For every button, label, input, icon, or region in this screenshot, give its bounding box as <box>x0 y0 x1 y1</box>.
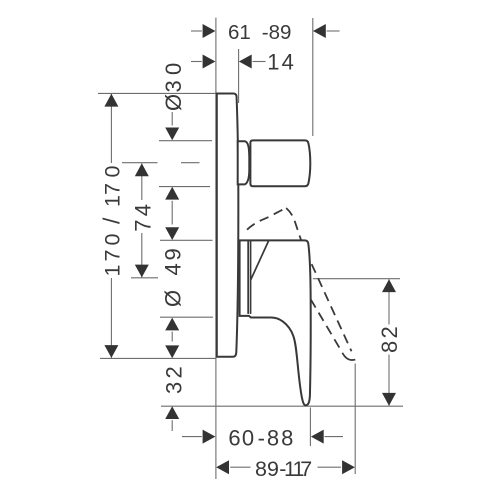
dimension 61-89 line tails <box>191 30 202 32</box>
dimension 82 line <box>388 279 390 324</box>
82 top extension line <box>313 278 400 280</box>
dashed lever tip extension line <box>354 364 356 475</box>
dimension 89-117 arrows <box>216 460 229 474</box>
wall extension line <box>215 18 217 479</box>
svg-text:117: 117 <box>284 457 312 481</box>
14 right extension line <box>238 49 240 103</box>
dim 74 bottom extension line <box>131 277 158 279</box>
plate bottom extension line <box>100 357 216 359</box>
knob centre line <box>122 162 158 164</box>
valve top extension line <box>160 239 213 241</box>
dimension 60-88 arrows <box>203 430 216 444</box>
dimension 60-88 tails <box>182 436 202 438</box>
dashed lever apex (open position) <box>247 208 286 230</box>
sleeve front lines <box>247 240 249 314</box>
svg-text:-88: -88 <box>258 425 296 450</box>
dimension 74 line <box>141 163 143 200</box>
dashed lever upper edge <box>286 208 351 351</box>
sleeve bottom extension line <box>160 316 213 318</box>
valve body and lever <box>240 240 311 405</box>
dimension 14 line tails <box>191 61 202 63</box>
61-89 right extension line <box>312 18 314 136</box>
lever bottom extension line <box>161 405 403 407</box>
escutcheon plate <box>217 94 239 357</box>
dimension 170/170 line <box>110 94 112 163</box>
stem between plate and knob <box>238 141 250 184</box>
knob top extension line <box>159 140 212 142</box>
dimension 89-117 tails <box>230 466 250 468</box>
knob <box>250 140 310 186</box>
dimension Ø30 leader and arrows <box>171 112 173 126</box>
svg-text:Ø30: Ø30 <box>161 63 186 111</box>
dimension 14 arrows <box>203 55 216 69</box>
svg-text:1: 1 <box>267 50 279 75</box>
svg-text:89: 89 <box>255 457 279 481</box>
plate top extension line <box>98 92 216 94</box>
dashed lever lower edge <box>311 299 343 352</box>
lever underside diagonal <box>251 240 269 280</box>
dimension Ø49 arrows <box>165 227 179 240</box>
lever tip extension line <box>309 408 311 447</box>
svg-text:60: 60 <box>228 425 255 450</box>
dimension 61-89 arrows <box>203 24 216 38</box>
svg-text:61: 61 <box>228 21 251 44</box>
svg-text:4: 4 <box>282 50 294 75</box>
dashed lever tip cap <box>342 353 355 360</box>
dimension 32 arrows <box>165 345 179 358</box>
svg-text:-89: -89 <box>262 21 292 44</box>
knob bottom extension line <box>159 186 210 188</box>
